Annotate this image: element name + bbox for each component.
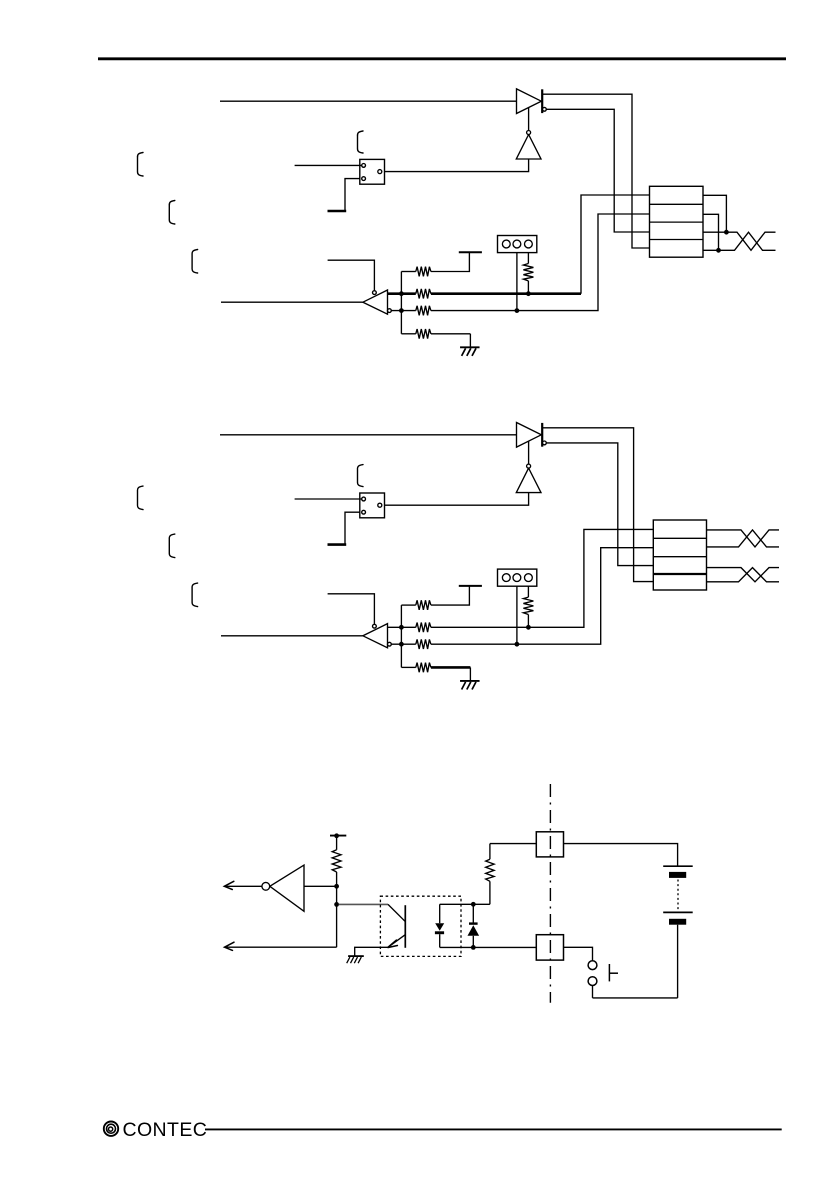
svg-text:CONTEC: CONTEC (123, 1119, 208, 1141)
